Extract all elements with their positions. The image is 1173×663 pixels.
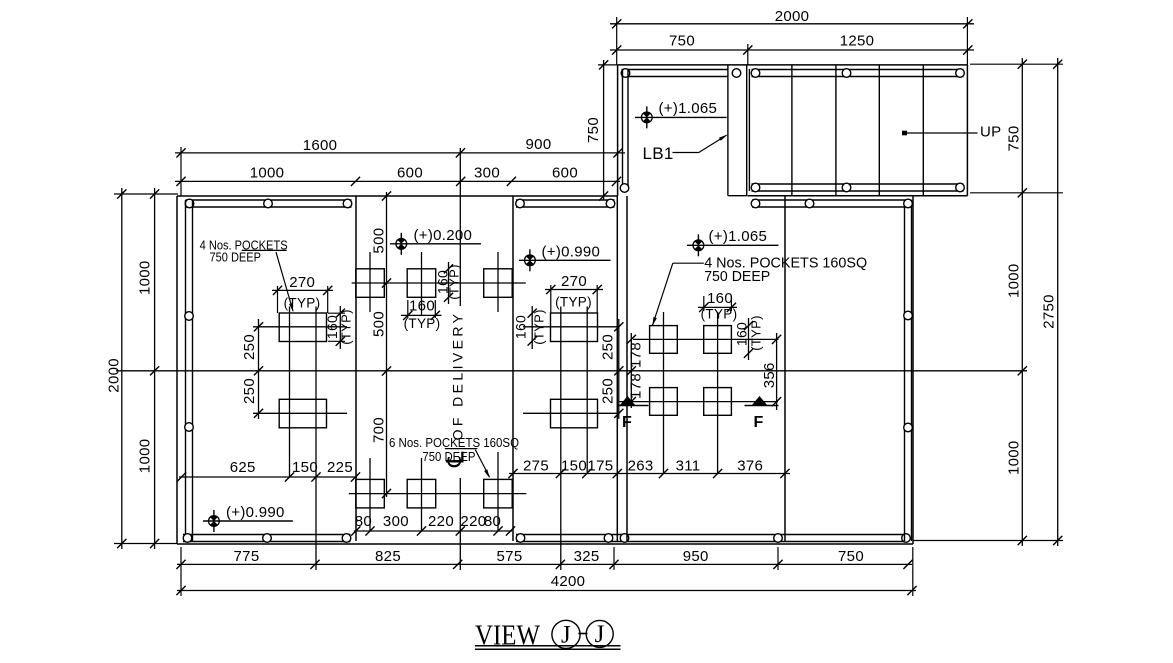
svg-text:(TYP): (TYP) [532, 309, 547, 344]
dim 2000 left [121, 188, 123, 549]
top wall beam segment B [516, 200, 615, 207]
mid-right room pocket lower [551, 399, 598, 428]
bottom row pocket centre line [349, 493, 527, 495]
pocket square bottom row 1 [356, 479, 385, 508]
svg-text:80: 80 [484, 513, 501, 530]
svg-text:(+)1.065: (+)1.065 [659, 100, 718, 117]
pocket square bottom row 2 [407, 479, 436, 508]
svg-text:VIEW: VIEW [475, 621, 541, 652]
svg-text:1000: 1000 [1006, 263, 1023, 298]
svg-text:1250: 1250 [840, 33, 875, 50]
dim 250-250 mid-right room [618, 319, 620, 419]
dim 2000 top [610, 23, 974, 25]
right room pocket column lines [664, 312, 718, 474]
svg-text:160: 160 [409, 298, 435, 315]
svg-text:950: 950 [683, 548, 709, 565]
stair bottom beam [752, 184, 964, 191]
svg-text:220: 220 [460, 513, 486, 530]
dim 263-311-376 [614, 473, 790, 475]
dim 275-150-175 [509, 473, 614, 475]
svg-text:750 DEEP: 750 DEEP [704, 269, 770, 285]
delivery centre line [459, 148, 461, 570]
svg-text:175: 175 [587, 458, 613, 475]
pocket square top row 3 [484, 269, 513, 298]
svg-text:600: 600 [552, 165, 578, 182]
svg-text:270: 270 [561, 273, 587, 290]
svg-text:600: 600 [397, 165, 423, 182]
svg-text:575: 575 [497, 548, 523, 565]
mid-right room pocket upper [551, 313, 598, 342]
dim 80-300-220-220-80 [354, 530, 512, 532]
svg-text:(TYP): (TYP) [701, 307, 738, 322]
svg-text:150: 150 [561, 458, 587, 475]
svg-text:(+)0.990: (+)0.990 [542, 243, 601, 260]
svg-text:311: 311 [676, 458, 701, 475]
svg-text:150: 150 [292, 459, 318, 476]
top wall beam segment A [186, 200, 352, 207]
level marker (+)0.990 bottom left [203, 510, 293, 532]
svg-text:270: 270 [289, 274, 315, 291]
top dim extension lines [617, 17, 968, 65]
svg-text:(+)1.065: (+)1.065 [709, 228, 768, 245]
svg-text:F: F [622, 414, 632, 431]
svg-text:℄: ℄ [443, 451, 470, 468]
svg-text:376: 376 [737, 458, 763, 475]
label UP with arrow [903, 132, 978, 134]
svg-text:263: 263 [628, 458, 654, 475]
svg-text:500: 500 [371, 311, 388, 337]
svg-text:(TYP): (TYP) [404, 316, 441, 331]
left room pocket upper [279, 313, 326, 342]
dim 160 TYP rotated pocket B [748, 318, 750, 360]
dim 270 TYP left room [272, 289, 333, 291]
svg-text:OF DELIVERY: OF DELIVERY [450, 311, 466, 441]
svg-text:1000: 1000 [137, 439, 154, 474]
svg-text:2000: 2000 [106, 358, 123, 393]
stair top beam [752, 70, 964, 77]
left wall beam [186, 200, 193, 541]
svg-text:1600: 1600 [303, 137, 338, 154]
stair landing left wall beam [623, 70, 629, 192]
dim 500-500-700 vertical [386, 192, 388, 497]
svg-text:2750: 2750 [1041, 294, 1058, 329]
dim 4200 [177, 590, 916, 592]
dim row 775-825-575-325-950-750 [177, 563, 912, 565]
right room pocket B [704, 326, 732, 354]
level marker (+)0.990 middle [519, 249, 611, 271]
bottom wall beam left segment [183, 535, 351, 542]
dim 1000-1000 left [154, 188, 156, 549]
svg-text:750: 750 [838, 548, 864, 565]
left dim extension lines [114, 194, 178, 544]
mid-right room pocket centre lines [523, 327, 619, 414]
main horizontal centre line [116, 370, 1027, 372]
svg-text:750: 750 [1006, 126, 1023, 152]
section marker F left [617, 405, 649, 407]
svg-text:2000: 2000 [775, 8, 810, 25]
svg-text:LB1: LB1 [643, 144, 674, 163]
interior wall x=513 [512, 196, 514, 541]
right room pocket C [650, 388, 678, 416]
svg-text:(TYP): (TYP) [749, 315, 764, 350]
right dim extension lines [913, 64, 1063, 540]
right room pocket D [704, 388, 732, 416]
svg-text:(TYP): (TYP) [555, 295, 592, 310]
svg-text:225: 225 [327, 459, 353, 476]
interior wall x=785 [784, 196, 786, 541]
dim 160 TYP rotated left room [339, 306, 341, 349]
dim 160 TYP rotated mid-right room [531, 306, 533, 349]
svg-text:1000: 1000 [137, 260, 154, 295]
svg-text:80: 80 [355, 513, 372, 530]
mid-right room pocket strip lines [561, 307, 587, 571]
svg-text:750 DEEP: 750 DEEP [210, 250, 262, 265]
dim 750-1250 top [610, 49, 974, 51]
svg-text:250: 250 [241, 378, 258, 404]
dim 270 TYP mid-right room [545, 289, 603, 291]
dim 160 TYP rotated top pocket 2 [448, 262, 450, 304]
level marker (+)1.065 right room [687, 234, 779, 256]
svg-text:160: 160 [734, 322, 750, 346]
svg-text:300: 300 [474, 165, 500, 182]
svg-text:J: J [595, 621, 605, 648]
pocket square bottom row 3 [484, 479, 513, 508]
dim 160 TYP above pocket B [698, 306, 737, 308]
left room pocket lower [279, 399, 326, 428]
svg-text:300: 300 [383, 513, 409, 530]
svg-text:325: 325 [574, 548, 600, 565]
left room pocket strip lines [290, 307, 317, 571]
svg-text:900: 900 [526, 136, 552, 153]
svg-text:(TYP): (TYP) [339, 309, 354, 344]
svg-text:250: 250 [241, 334, 258, 360]
right wall beam [905, 200, 912, 541]
svg-text:178: 178 [628, 373, 645, 399]
svg-text:160: 160 [707, 290, 733, 307]
dim 178-178 [630, 333, 632, 408]
svg-text:(+)0.200: (+)0.200 [414, 227, 473, 244]
stair treads [792, 65, 923, 196]
double wall x=617-627 [617, 196, 627, 541]
svg-text:500: 500 [371, 228, 388, 254]
main top dim extension line [180, 147, 182, 196]
svg-text:750: 750 [669, 33, 695, 50]
dim 160 TYP under top pocket 2 [401, 314, 442, 316]
dim 1000-600-300-600 [175, 180, 620, 182]
svg-text:775: 775 [234, 548, 260, 565]
svg-text:(+)0.990: (+)0.990 [226, 504, 285, 521]
top row pocket centre line [352, 282, 526, 284]
right room pocket row centre lines [619, 339, 779, 401]
dim 750 stair left [598, 64, 618, 66]
svg-text:1000: 1000 [1006, 440, 1023, 475]
bottom wall beam right segment [516, 535, 904, 542]
svg-text:825: 825 [375, 548, 401, 565]
svg-text:220: 220 [428, 513, 454, 530]
left room pocket centre lines [253, 327, 347, 414]
dim 750-1000-1000 right [1021, 58, 1023, 546]
dim 2750 right [1057, 58, 1059, 546]
wall outline - main body and stair block [177, 65, 967, 544]
bottom dim extension lines [181, 547, 913, 596]
svg-text:178: 178 [628, 342, 645, 368]
stair landing partition wall [728, 65, 750, 196]
level marker (+)1.065 stair landing [635, 106, 727, 128]
svg-text:275: 275 [523, 458, 549, 475]
svg-text:250: 250 [600, 378, 617, 404]
svg-text:356: 356 [761, 362, 778, 388]
dim 625-150-225 [179, 476, 357, 478]
dim 356 [776, 333, 778, 410]
svg-text:J: J [561, 622, 571, 649]
dim 250-250 left room [258, 319, 260, 419]
level marker (+)0.200 [390, 233, 481, 255]
svg-text:250: 250 [600, 334, 617, 360]
svg-text:1000: 1000 [250, 165, 285, 182]
right room pocket A [650, 326, 678, 354]
svg-text:160: 160 [513, 315, 529, 339]
beam below staircase [752, 200, 912, 207]
interior wall x=356 [355, 196, 357, 541]
svg-text:(TYP): (TYP) [447, 264, 462, 299]
dim 1600-900 [175, 152, 625, 154]
svg-text:F: F [754, 414, 764, 431]
section marker F right [745, 405, 779, 407]
svg-text:625: 625 [230, 459, 256, 476]
svg-text:UP: UP [980, 124, 1001, 141]
svg-text:700: 700 [371, 417, 388, 443]
pocket square top row 1 [356, 269, 385, 298]
stair landing top beam [622, 70, 728, 77]
svg-text:4200: 4200 [551, 573, 586, 590]
svg-text:750: 750 [585, 117, 602, 143]
pocket square top row 2 [407, 269, 436, 298]
